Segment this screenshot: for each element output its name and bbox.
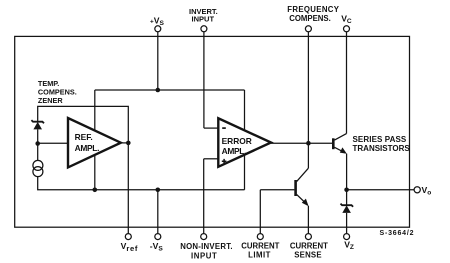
wire Vref vertical down to pin — [127, 143, 129, 234]
wire node to zener D2 — [346, 190, 348, 205]
current source I1 circle upper — [33, 160, 43, 170]
node junction dot emitter / Vo / zener D2 — [344, 188, 349, 193]
wire invert input vertical — [203, 32, 205, 128]
transistor Q1 emitter diagonal — [335, 147, 346, 153]
svg-text:TRANSISTORS: TRANSISTORS — [353, 144, 411, 153]
svg-text:Vo: Vo — [422, 185, 432, 197]
wire ref amp output to Vref node — [121, 142, 129, 144]
outer border frame of IC — [15, 36, 410, 227]
wire ref amp bottom supply riser — [94, 155, 96, 190]
svg-text:LIMIT: LIMIT — [248, 251, 271, 260]
zener D1 cathode bar with bent ends — [31, 120, 44, 123]
svg-text:AMPL.: AMPL. — [222, 146, 247, 156]
wire Vo horizontal — [347, 189, 415, 191]
wire Q2 base to current limit corner — [260, 189, 294, 191]
svg-text:VC: VC — [341, 13, 352, 25]
node junction dot +Vs on +V rail — [156, 88, 161, 93]
wire Vc vertical to Q1 collector — [346, 32, 348, 134]
pin Vo terminal circle — [414, 187, 420, 193]
transistor Q2 base bar — [294, 180, 297, 196]
svg-text:SENSE: SENSE — [294, 251, 321, 260]
pin CURRENT SENSE terminal circle — [305, 234, 311, 240]
wire non-invert input horizontal to error amp plus input — [204, 158, 220, 160]
svg-text:NON-INVERT.: NON-INVERT. — [180, 242, 233, 251]
svg-text:+VS: +VS — [150, 16, 164, 28]
error amp plus input mark — [222, 159, 227, 164]
svg-text:VZ: VZ — [344, 240, 354, 252]
transistor Q1 emitter arrowhead — [340, 147, 347, 153]
pin Vc terminal circle — [344, 26, 350, 32]
wire current limit vertical to pin — [259, 190, 261, 234]
wire error amp top supply drop — [244, 90, 246, 131]
pin +Vs stem wire — [157, 32, 159, 90]
node junction dot ref amp output / Vref — [126, 141, 131, 146]
transistor Q2 emitter diagonal — [297, 194, 308, 205]
transistor Q2 collector diagonal — [297, 168, 309, 181]
svg-text:ERROR: ERROR — [222, 136, 252, 146]
svg-text:S-3664/2: S-3664/2 — [380, 230, 415, 237]
svg-text:REF.: REF. — [75, 132, 93, 142]
svg-text:COMPENS.: COMPENS. — [289, 14, 331, 23]
svg-text:INPUT: INPUT — [192, 14, 215, 23]
node junction dot error amp output / freq compens / Q2 collector — [306, 141, 311, 146]
wire +V rail horizontal — [95, 89, 245, 91]
wire invert input horizontal to error amp minus input — [204, 127, 220, 129]
svg-text:AMPL.: AMPL. — [75, 143, 100, 153]
zener D2 anode triangle — [342, 205, 351, 213]
wire Q1 emitter vertical to output node — [346, 154, 348, 190]
pin +Vs terminal circle — [155, 26, 161, 32]
pin Vref terminal circle — [125, 234, 131, 240]
wire Q2 collector vertical from output node — [307, 143, 309, 168]
svg-text:CURRENT: CURRENT — [290, 241, 328, 250]
transistor Q1 collector diagonal — [335, 134, 347, 141]
pin -Vs terminal circle — [155, 234, 161, 240]
zener D1 top wire corner — [38, 106, 129, 142]
pin INVERT INPUT terminal circle — [201, 26, 207, 32]
wire error amp bottom supply riser — [244, 154, 246, 189]
zener D1 anode triangle — [33, 122, 42, 129]
wire current source bottom to -V bus — [38, 177, 245, 190]
wire ref amp input horizontal — [38, 142, 69, 144]
wire ref amp top supply drop — [94, 90, 96, 131]
svg-text:CURRENT: CURRENT — [241, 241, 279, 250]
wire Q2 emitter to current sense pin — [307, 206, 309, 234]
node junction dot ref amp bottom supply on bus — [93, 188, 98, 193]
pin CURRENT LIMIT terminal circle — [257, 234, 263, 240]
zener D2 cathode bar with bent ends — [341, 204, 354, 207]
op-amp REF AMPL triangle — [68, 118, 121, 167]
svg-text:-VS: -VS — [150, 241, 164, 253]
node junction dot zener anode / ref amp input — [35, 141, 40, 146]
svg-text:ZENER: ZENER — [38, 96, 63, 105]
error amp minus input mark — [222, 127, 226, 129]
svg-text:SERIES PASS: SERIES PASS — [353, 135, 407, 144]
wire frequency compens vertical to error amp output node — [307, 32, 309, 143]
wire error amp output to Q1 base — [271, 142, 332, 144]
transistor Q2 emitter arrowhead — [302, 199, 309, 207]
pin Vz terminal circle — [344, 234, 350, 240]
wire -Vs drop from bus to pin — [157, 190, 159, 234]
svg-text:INPUT: INPUT — [191, 251, 217, 260]
wire zener D1 anode to node — [37, 129, 39, 160]
op-amp ERROR AMPL triangle — [218, 118, 271, 167]
pin FREQUENCY COMPENS terminal circle — [305, 26, 311, 32]
wire zener D2 to Vz pin — [346, 213, 348, 234]
svg-text:FREQUENCY: FREQUENCY — [287, 5, 340, 14]
svg-text:Vref: Vref — [121, 241, 139, 253]
node junction dot -Vs on bus — [156, 188, 161, 193]
transistor Q1 base bar — [332, 138, 335, 149]
wire non-invert input vertical — [203, 159, 205, 234]
pin NON-INVERT INPUT terminal circle — [201, 234, 207, 240]
current source I1 circle lower — [33, 167, 43, 177]
